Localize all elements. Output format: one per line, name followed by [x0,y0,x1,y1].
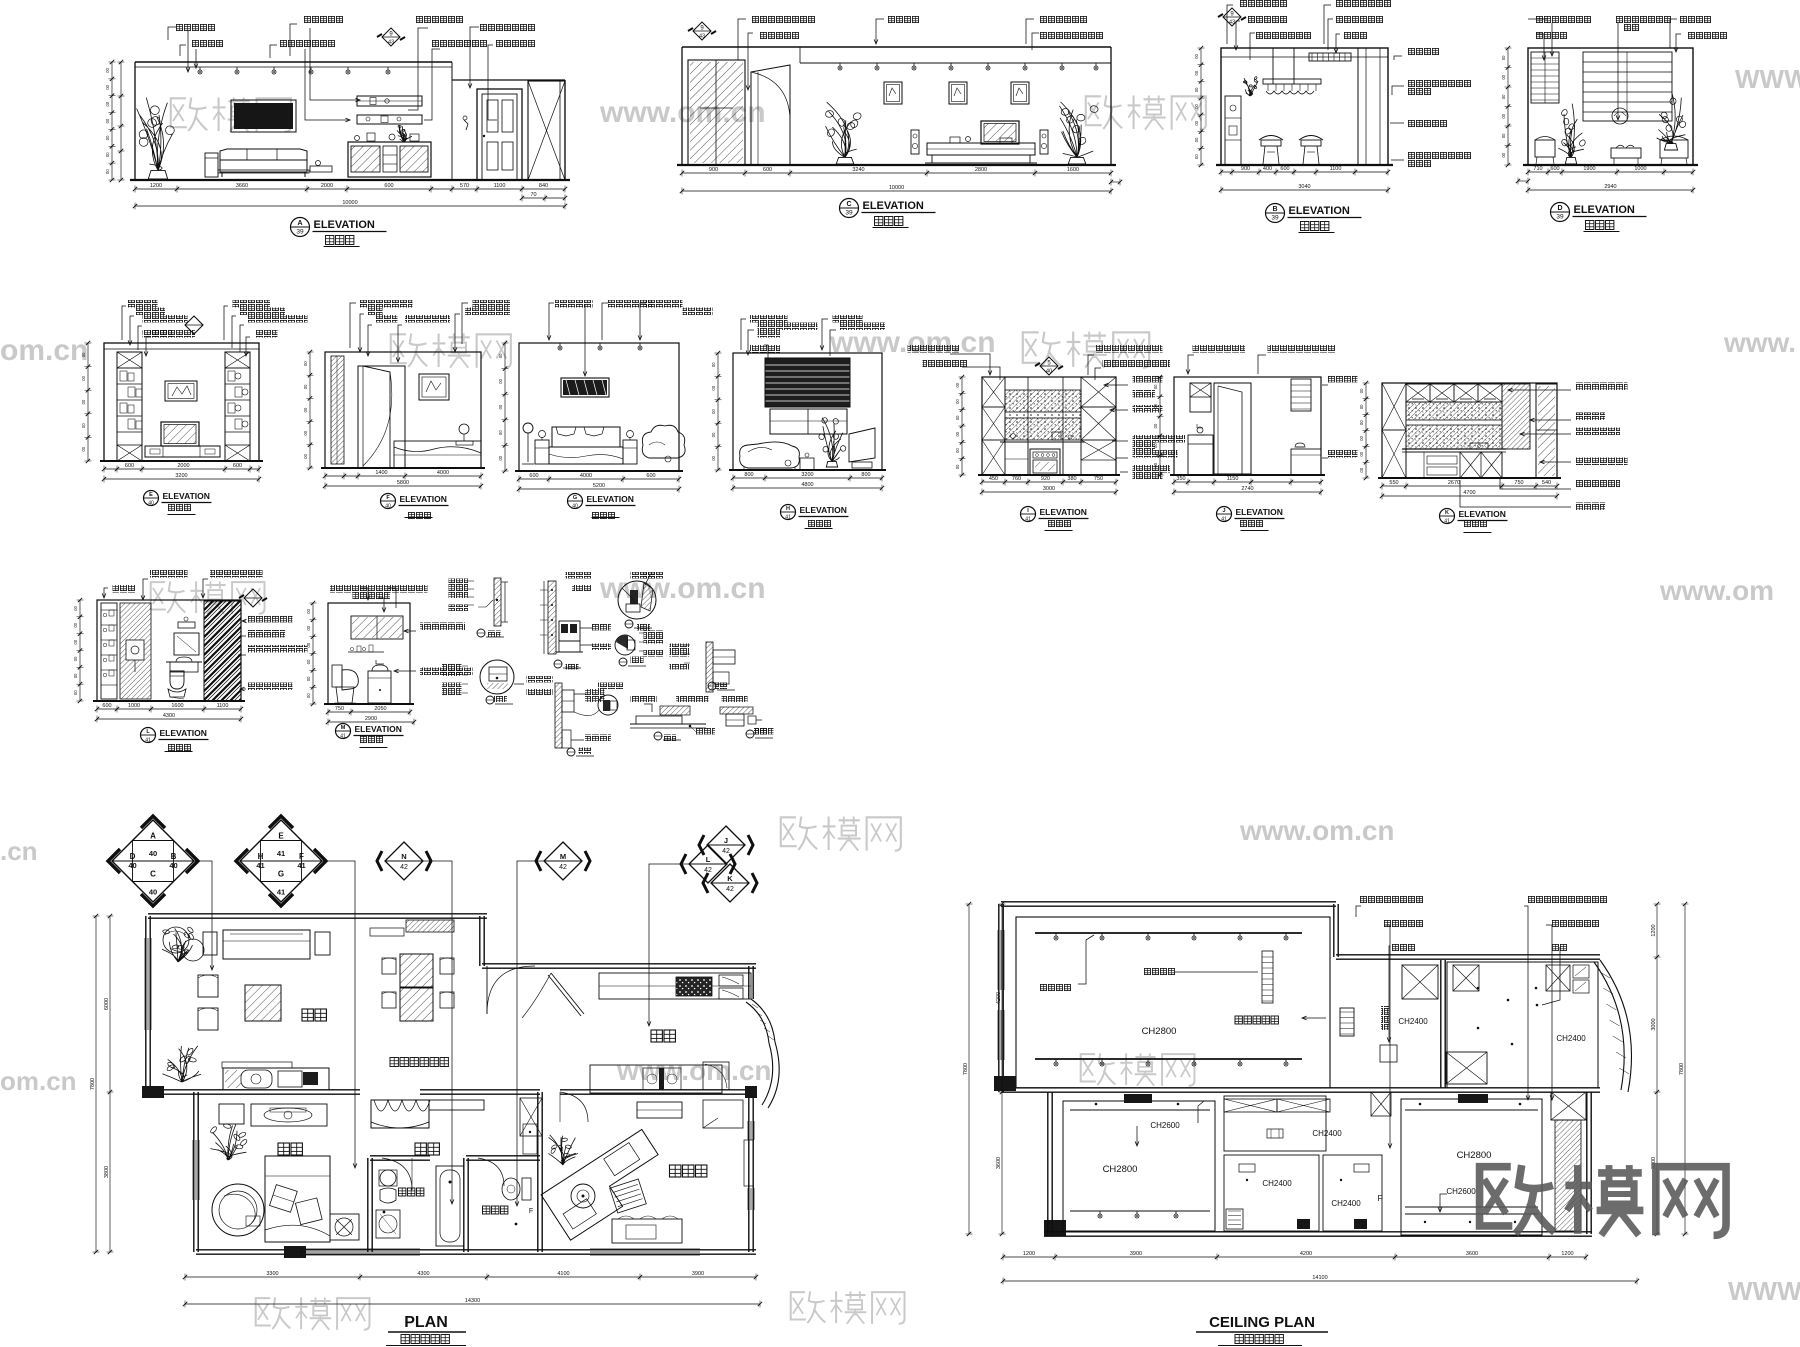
plan: walls lower band partitions [367,1158,369,1252]
svg-text:00: 00 [1194,137,1199,142]
elev R2-2: annotations [360,300,413,308]
ceiling: bottom dims [1003,1256,1586,1258]
elevation D: shelf grid right [1583,52,1672,121]
svg-text:900: 900 [1241,166,1250,172]
ceiling: mid vertical label [1381,1006,1389,1030]
svg-text:600: 600 [646,473,655,479]
svg-text:ELEVATION: ELEVATION [863,200,924,212]
svg-text:F: F [529,1208,533,1215]
elev R2-7: counter + base cabinets [1402,448,1506,450]
svg-text:00: 00 [306,608,311,613]
svg-text:00: 00 [105,135,110,140]
bath elev 2: outline [328,603,410,704]
elevation D: mid plant tall [1565,157,1576,164]
svg-text:750: 750 [335,706,344,712]
svg-text:00: 00 [1501,152,1506,157]
plan: living center table [245,985,281,1021]
elev R2-6: right lower cabinet + kettle [1291,449,1321,475]
svg-text:F: F [299,852,304,861]
ceiling: outer walls top-left room [1001,901,1336,903]
detail f: vertical section w/ circle [555,683,562,748]
svg-text:42: 42 [704,867,712,874]
svg-text:00: 00 [955,448,960,453]
watermark row6: oumowang partial bottom mid [791,1292,806,1319]
svg-text:ELEVATION: ELEVATION [1040,507,1087,517]
detail i: far-right sill section [720,707,753,714]
svg-text:00: 00 [1501,94,1506,99]
svg-text:2000: 2000 [321,183,333,189]
svg-text:ELEVATION: ELEVATION [1459,509,1506,519]
svg-text:00: 00 [73,673,78,678]
elev R2-3: armchair right [642,425,685,458]
elevation C: diamond [693,22,711,40]
svg-text:E: E [278,832,284,841]
plan: living room furniture: media wall [223,930,310,959]
elev R2-3: annotations [555,300,593,308]
svg-text:1000: 1000 [128,703,140,709]
elevation A: annotation labels [176,24,216,32]
plan: kitchen door arc [551,973,584,1014]
svg-text:00: 00 [498,404,503,409]
plan: bedroom label [278,1143,289,1155]
svg-text:00: 00 [73,622,78,627]
elev R2-4: dims [733,477,882,479]
plan: bath1 fixtures [380,1170,396,1186]
ceiling: access panel [1380,1045,1397,1062]
elev R2-2: outline [325,352,481,468]
elev R2-4: outline [733,353,882,470]
elevation A: door wall lamp [464,120,468,130]
svg-text:00: 00 [1194,87,1199,92]
elevation C: sliding mirror door left [688,60,745,165]
elev R2-5: title [1021,507,1036,522]
svg-text:41: 41 [340,734,346,740]
elevation D: deco circle [1612,108,1628,124]
watermark row6: oumowang bottom-left [256,1298,271,1325]
svg-text:43: 43 [1229,20,1235,26]
svg-text:4300: 4300 [417,1271,429,1277]
watermark row4: oumowang [781,817,797,846]
elev R2-7: right tall mirror cabinet [1536,384,1557,478]
svg-text:00: 00 [1153,462,1158,467]
svg-text:ELEVATION: ELEVATION [355,724,402,734]
plan: dining hatched tables [400,954,433,987]
plan: bedroom dresser top [219,1104,244,1124]
elev R2-5: cabinet grid [1004,377,1006,475]
elev R2-5: small items [1011,434,1016,439]
ceiling: left dims [1001,904,1003,1234]
svg-text:D: D [1557,205,1562,212]
svg-text:4000: 4000 [580,473,592,479]
svg-text:41: 41 [256,861,264,870]
svg-text:00: 00 [1501,133,1506,138]
svg-text:1600: 1600 [171,703,183,709]
svg-text:450: 450 [989,476,998,482]
elevation A: sofa [220,149,307,160]
svg-text:00: 00 [1359,451,1364,456]
svg-text:00: 00 [306,625,311,630]
elevation B: annotations right [1408,48,1440,56]
elev R2-7: outline [1382,383,1557,478]
elevation A: TV panel [234,103,293,129]
plan: bath2 toilet [522,1178,531,1200]
svg-text:00: 00 [81,375,86,380]
watermark row2: oumowang 2 [1023,332,1040,362]
svg-text:1200: 1200 [1023,1251,1035,1257]
bath elev 1: dims [97,708,241,710]
bath elev 2: title [336,724,351,739]
svg-text:840: 840 [539,183,548,189]
elev R2-7: upper right hatched glass [1502,384,1530,449]
svg-text:00: 00 [955,382,960,387]
svg-text:CH2400: CH2400 [1262,1179,1292,1188]
svg-text:2000: 2000 [177,463,189,469]
watermark row5: oumowang ceiling [1081,1054,1096,1081]
elev R2-3: ceiling lamps [559,343,561,346]
plan: bedroom bed [265,1156,330,1242]
elev R2-1: picture frame [165,381,197,401]
elevation C: TV console [927,143,1035,155]
svg-text:3600: 3600 [996,1157,1002,1169]
bath elev 2: vanity cabinet + basin [368,671,391,703]
elev R2-1: TV [161,422,199,446]
svg-text:40: 40 [572,504,578,510]
plan: left dims [109,916,111,1252]
svg-text:00: 00 [1153,423,1158,428]
svg-text:600: 600 [125,463,134,469]
svg-text:1100: 1100 [1330,166,1342,172]
svg-text:10000: 10000 [889,185,904,191]
svg-text:00: 00 [498,353,503,358]
plan: entry door arc [486,966,488,1014]
svg-text:00: 00 [303,453,308,458]
svg-text:70: 70 [530,192,536,198]
svg-text:00: 00 [303,384,308,389]
ceiling: lower band walls [1047,1092,1049,1234]
svg-text:41: 41 [1025,517,1031,523]
elev R2-3: side tables + lamps [535,440,549,464]
elevation D: right plant tall [1664,144,1677,150]
elev R2-3: bed [552,427,620,447]
bath elev 1: shower fixture [126,640,144,660]
svg-text:K: K [1445,510,1449,516]
svg-text:760: 760 [1012,476,1021,482]
elev R2-5: hatched glass band [1005,390,1081,412]
svg-text:39: 39 [296,229,304,236]
svg-text:800: 800 [861,472,870,478]
elev R2-4: dark venetian blinds [765,358,850,407]
plan: dining top hatch wall detail [406,920,454,932]
svg-text:5200: 5200 [593,483,605,489]
ceiling: work room cell [1401,1099,1542,1235]
elevation D: chairs and bench [1535,140,1555,157]
svg-text:00: 00 [498,378,503,383]
plan: floor note label [390,1058,398,1067]
svg-text:4300: 4300 [163,713,175,719]
svg-text:00: 00 [105,101,110,106]
ceiling: mid section walls [1440,960,1442,1088]
svg-text:00: 00 [1501,113,1506,118]
svg-text:750: 750 [1514,480,1523,486]
bath elev 1: left shelf column [101,603,117,699]
svg-text:3660: 3660 [236,183,248,189]
plan: work room couch [612,1219,682,1243]
plan: diamond N42 [385,842,423,880]
svg-text:3040: 3040 [1298,184,1310,190]
svg-text:00: 00 [306,642,311,647]
svg-text:920: 920 [1041,476,1050,482]
elevation B: annotations left [1240,0,1288,8]
svg-text:00: 00 [81,446,86,451]
svg-text:00: 00 [306,659,311,664]
elevation A: coffee table items [310,166,332,172]
svg-text:40: 40 [385,504,391,510]
svg-text:ELEVATION: ELEVATION [314,219,375,231]
plan: living sofa bottom [223,1068,329,1090]
svg-text:00: 00 [1359,388,1364,393]
elevation A: items on sideboard [355,136,360,141]
ceiling: bath cell 2 [1323,1155,1382,1231]
svg-text:42: 42 [559,864,567,871]
big oumowang watermark bottom right [1480,1165,1726,1235]
svg-text:00: 00 [81,423,86,428]
svg-text:CH2800: CH2800 [1457,1150,1492,1161]
svg-text:www.: www. [1723,327,1796,358]
svg-text:42: 42 [400,864,408,871]
svg-text:00: 00 [306,693,311,698]
svg-text:00: 00 [1153,403,1158,408]
elevation A: dim row 1 [135,188,565,190]
plan: bedroom round chair [212,1184,264,1236]
elevation A: door frame [477,89,522,180]
elevation B: left dim chain [1200,48,1202,165]
bath elev 1: small diamond [244,589,262,607]
elev R2-7: left tall cabinet [1382,383,1406,478]
svg-text:A: A [297,220,302,227]
svg-text:550: 550 [1389,480,1398,486]
svg-text:3900: 3900 [1130,1251,1142,1257]
bath elev 1: mirror + light [174,633,199,655]
svg-text:00: 00 [711,455,716,460]
svg-text:B: B [171,852,177,861]
plan: mid horizontal wall [148,1089,360,1091]
elev R2-4: chaise sofa [740,442,800,468]
svg-text:1150: 1150 [1227,476,1239,482]
ceiling: top wall of right section [1336,954,1600,956]
ceiling: lamp track bottom [1035,1058,1302,1060]
plan: diamond M42 [544,842,582,880]
svg-text:600: 600 [233,463,242,469]
bath elev 1: vanity + basin [166,661,202,663]
svg-text:1100: 1100 [494,183,506,189]
elev R2-3: outline [519,343,679,471]
svg-text:800: 800 [744,472,753,478]
svg-text:00: 00 [498,430,503,435]
elev R2-6: dims [1174,481,1321,483]
plan: work room label [670,1165,681,1177]
svg-text:00: 00 [1359,420,1364,425]
svg-text:ELEVATION: ELEVATION [1289,205,1350,217]
svg-text:40: 40 [149,849,157,858]
svg-text:39: 39 [845,210,853,217]
watermark row2: oumowang [391,334,407,363]
elev R2-3: art panel [561,378,609,397]
svg-text:00: 00 [73,639,78,644]
svg-text:00: 00 [73,690,78,695]
elevation D: left dim chain [1507,48,1509,165]
elevation A: dim row 2 total [135,205,565,207]
svg-text:M: M [341,725,346,731]
ceiling: top annotations [1360,896,1424,904]
svg-text:00: 00 [1359,435,1364,440]
svg-text:E: E [149,492,153,498]
svg-text:570: 570 [460,183,469,189]
elev R2-7: shelf band [1406,420,1502,425]
elev R2-5: dims [982,481,1116,483]
svg-text:40: 40 [148,501,154,507]
svg-text:41: 41 [1221,517,1227,523]
svg-text:www.om.cn: www.om.cn [599,572,766,605]
svg-text:00: 00 [303,430,308,435]
svg-text:00: 00 [1359,404,1364,409]
svg-text:2900: 2900 [365,716,377,722]
elevation B: bar chairs [1259,136,1283,141]
ceiling: bath cell 1 [1224,1155,1319,1231]
watermark row3: oumowang [151,582,166,609]
elev R2-7: title [1440,509,1455,524]
svg-text:D: D [130,852,136,861]
svg-text:14300: 14300 [465,1298,480,1304]
svg-text:H: H [786,506,790,512]
svg-text:1200: 1200 [150,183,162,189]
svg-text:4200: 4200 [1300,1251,1312,1257]
svg-text:600: 600 [384,183,393,189]
svg-text:5800: 5800 [397,480,409,486]
svg-text:00: 00 [711,432,716,437]
detail g: horizontal sill section [630,723,706,725]
svg-text:3600: 3600 [1466,1251,1478,1257]
ceiling: top-left room inner rect [1016,917,1330,1088]
svg-text:00: 00 [955,431,960,436]
elev R2-4: plant [826,461,837,467]
elev R2-6: door leaf open [1214,383,1251,474]
plan: windows in walls [144,938,146,1030]
elev R2-2: door opening + leaf [358,366,405,468]
elev R2-1: title [144,491,159,506]
elevation C: speakers [911,130,919,154]
watermark row1: oumowang [171,98,187,127]
elev R2-7: small sink on counter [1470,443,1488,449]
elevation C: picture frames [884,82,902,104]
svg-text:K: K [727,874,733,883]
svg-text:N: N [401,852,406,861]
elevation C: plant left [836,157,854,164]
elev R2-6: annotations [1193,345,1246,353]
elevation B: left cabinet [1225,96,1241,165]
svg-text:00: 00 [306,676,311,681]
svg-text:4700: 4700 [1463,490,1475,496]
svg-text:900: 900 [709,167,718,173]
svg-text:www.om.cn: www.om.cn [1239,815,1395,846]
plan: living side cabinet bottom [222,1062,292,1068]
svg-text:40: 40 [169,861,177,870]
elev R2-3: dims [519,478,679,480]
bath elev 2: shelf with bottles [348,651,384,653]
svg-text:CH2400: CH2400 [1312,1129,1342,1138]
svg-text:600: 600 [529,473,538,479]
ceiling: right room inner [1447,962,1598,1088]
elevation A: plant left [148,170,167,179]
elev R2-6: vanity left [1188,435,1213,475]
bath elev 1: outline [97,600,241,701]
elev R2-7: backsplash hatch [1406,402,1502,449]
svg-text:1400: 1400 [375,470,387,476]
svg-text:4200: 4200 [996,992,1002,1004]
plan: living armchairs left [198,975,218,997]
elevation A: left dim chain [111,62,113,180]
ceiling: wide xbox above mid wall [1446,1052,1487,1084]
elevation D: annotations [1536,16,1592,24]
svg-text:00: 00 [81,352,86,357]
svg-text:G: G [573,495,577,501]
elevation D: title [1551,203,1570,222]
bath elev 2: toilet side view [332,665,342,687]
svg-text:39: 39 [1271,215,1279,222]
svg-text:40: 40 [1046,369,1052,375]
svg-text:00: 00 [711,362,716,367]
svg-text:CH2600: CH2600 [1150,1121,1180,1130]
svg-text:G: G [278,870,284,879]
bath elev 1: title [141,728,156,743]
svg-text:om.cn: om.cn [0,334,88,367]
svg-text:3800: 3800 [104,1166,110,1178]
svg-text:00: 00 [105,84,110,89]
bath elev 2: dims [328,711,410,713]
detail e: circle w/ rect section [480,660,514,694]
elevation A: small diamond symbol [382,28,400,46]
detail a: wall section w/ leaders [494,578,501,626]
elevation D: outline [1528,48,1693,165]
plan: work room shelf top [637,1102,682,1118]
plan: diamond cluster 3 (J42 L42 K42) [707,826,745,864]
svg-text:CH2800: CH2800 [1103,1164,1138,1175]
elevation B: diamond [1223,8,1241,26]
svg-text:6000: 6000 [104,998,110,1010]
svg-text:400: 400 [1263,166,1272,172]
svg-text:CH2600: CH2600 [1446,1187,1476,1196]
bath elev 1: annotations right [248,615,293,623]
bath elev 2: annotations [330,585,390,593]
svg-text:600: 600 [1280,166,1289,172]
plan: bath1 label [399,1188,406,1196]
elev R2-4: title [781,505,796,520]
elevation D: left slat panel [1531,52,1559,103]
detail h: right wall section [706,642,713,692]
svg-text:380: 380 [1067,476,1076,482]
svg-text:ELEVATION: ELEVATION [1574,204,1635,216]
elevation B: title [1266,204,1285,223]
elev R2-6: upper cabinet left [1190,383,1211,412]
elevation C: wall outline [682,46,1111,48]
elev R2-1: dims [104,468,259,470]
plan: living label [302,1009,313,1021]
ceiling: right dims [1656,904,1658,1234]
svg-text:3200: 3200 [175,473,187,479]
svg-text:CH2800: CH2800 [1142,1026,1177,1037]
elevation B: hanging rack column [1272,48,1274,84]
svg-text:H: H [258,852,264,861]
plan: work room plant [548,1135,578,1165]
